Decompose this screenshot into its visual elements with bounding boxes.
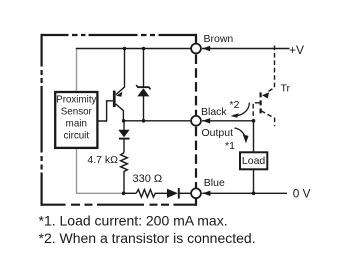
wire: load to 0V rail	[253, 169, 255, 193]
svg-text:Tr: Tr	[281, 82, 291, 94]
svg-text:0 V: 0 V	[293, 186, 311, 200]
terminal Brown	[191, 44, 201, 54]
svg-text:Load: Load	[242, 155, 266, 167]
transistor Q1 emitter arrow (PNP, pointing at base bar)	[116, 92, 122, 97]
svg-text:Blue: Blue	[204, 177, 225, 189]
wire: top +V rail inside sensor	[76, 48, 191, 50]
svg-text:*2. When a transistor is conne: *2. When a transistor is connected.	[39, 230, 256, 246]
junction dot at 0V rail	[252, 192, 256, 196]
diode D2 cathode bar	[178, 188, 180, 199]
arrow into Brown terminal	[202, 46, 210, 51]
resistor R2 330 zigzag	[136, 190, 167, 198]
svg-text:+V: +V	[289, 43, 304, 57]
svg-text:330 Ω: 330 Ω	[133, 173, 163, 185]
transistor Q1 base bar	[113, 91, 116, 107]
sensor enclosure border: solid stub below Blue terminal	[195, 199, 197, 206]
svg-text:Black: Black	[201, 106, 227, 118]
junction dot collector/top rail	[123, 47, 127, 51]
external transistor Tr base bar (dashed)	[260, 92, 262, 114]
wire: base wiring from main circuit box	[98, 101, 113, 121]
external transistor Tr collector lead (dashed)	[261, 111, 275, 127]
svg-text:4.7 kΩ: 4.7 kΩ	[87, 154, 118, 166]
proximity sensor main circuit box	[55, 92, 97, 148]
wire: top rail from Brown terminal to +V	[202, 48, 290, 50]
wire: Black output to load	[202, 121, 254, 153]
svg-text:circuit: circuit	[64, 130, 90, 141]
arrow into Black terminal	[202, 118, 210, 123]
sensor enclosure border: right edge solid stub above Brown terminal	[195, 34, 197, 43]
wire: bottom rail from junction to 330 resistor	[122, 192, 136, 194]
zener diode ZD cathode bar with wings	[136, 85, 150, 89]
load box	[240, 152, 267, 169]
curved arrow for Output/Load	[235, 128, 246, 141]
transistor Q1 collector lower lead	[116, 104, 124, 121]
external transistor Tr base lead (dashed)	[253, 103, 259, 120]
diode D1 top lead	[123, 121, 125, 130]
gray internal supply wire: vertical above box, below box, and bottom run	[76, 49, 78, 92]
diode D1 cathode bar	[119, 138, 130, 140]
junction dot zener/top rail	[142, 47, 146, 51]
terminal Black	[191, 116, 201, 126]
svg-text:*1. Load current: 200 mA max.: *1. Load current: 200 mA max.	[39, 213, 228, 229]
svg-text:*2: *2	[230, 99, 240, 111]
resistor R1 4.7k zigzag	[121, 153, 128, 194]
sensor enclosure dash-dot border: left edge	[40, 34, 42, 206]
svg-text:main: main	[66, 118, 87, 129]
sensor enclosure dash-dot border: top edge	[41, 34, 198, 36]
wire: middle output rail	[123, 120, 190, 122]
svg-text:Brown: Brown	[204, 33, 234, 45]
svg-text:Sensor: Sensor	[61, 107, 93, 118]
zener diode ZD triangle (anode, pointing up)	[137, 88, 149, 96]
svg-text:Proximity: Proximity	[56, 95, 96, 106]
wire: 0V rail	[202, 192, 287, 194]
zener diode ZD bottom lead	[143, 96, 145, 121]
curved arrow for *2	[233, 103, 249, 116]
sensor enclosure border: dashed segment Brown to Black	[195, 55, 197, 116]
junction dot emitter/middle rail	[122, 119, 126, 123]
svg-text:Output: Output	[202, 127, 234, 139]
junction dot resistor/bottom rail	[122, 192, 126, 196]
diode D1 bottom lead	[123, 140, 125, 153]
transistor Q1 collector vertical wire	[116, 49, 125, 95]
terminal Blue	[191, 188, 201, 198]
external transistor Tr (dashed): emitter lead from +V	[266, 46, 275, 93]
sensor enclosure dash-dot border: bottom edge	[41, 204, 197, 206]
junction dot at load branch	[252, 119, 256, 123]
zener diode ZD top lead	[143, 49, 145, 87]
external transistor Tr emitter arrowhead	[262, 92, 269, 98]
junction dot zener/middle rail	[142, 119, 146, 123]
diode D2 triangle pointing right	[167, 189, 178, 198]
sensor enclosure border: dashed segment Black to Blue	[195, 127, 197, 188]
arrow into Blue terminal	[202, 191, 210, 196]
wire to Blue terminal	[179, 192, 191, 194]
svg-text:*1: *1	[225, 140, 235, 152]
diode D1 triangle pointing down	[118, 130, 129, 138]
